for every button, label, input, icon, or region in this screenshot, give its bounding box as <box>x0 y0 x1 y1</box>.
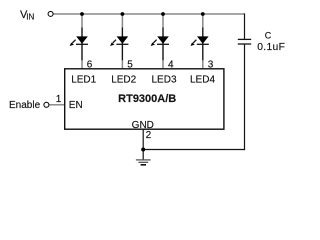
svg-text:RT9300A/B: RT9300A/B <box>118 93 176 105</box>
svg-text:4: 4 <box>168 60 174 71</box>
svg-text:GND: GND <box>132 120 154 131</box>
svg-text:0.1uF: 0.1uF <box>257 42 285 53</box>
svg-text:5: 5 <box>127 60 133 71</box>
svg-text:Enable: Enable <box>9 100 41 111</box>
svg-text:6: 6 <box>87 60 93 71</box>
svg-text:LED2: LED2 <box>111 75 136 86</box>
svg-text:EN: EN <box>69 100 83 111</box>
svg-text:1: 1 <box>56 94 62 105</box>
svg-text:C: C <box>265 30 272 40</box>
svg-text:2: 2 <box>146 130 152 141</box>
svg-text:3: 3 <box>208 60 214 71</box>
svg-text:LED4: LED4 <box>190 75 215 86</box>
svg-text:LED3: LED3 <box>151 75 176 86</box>
svg-text:IN: IN <box>26 12 34 21</box>
svg-text:LED1: LED1 <box>71 75 96 86</box>
